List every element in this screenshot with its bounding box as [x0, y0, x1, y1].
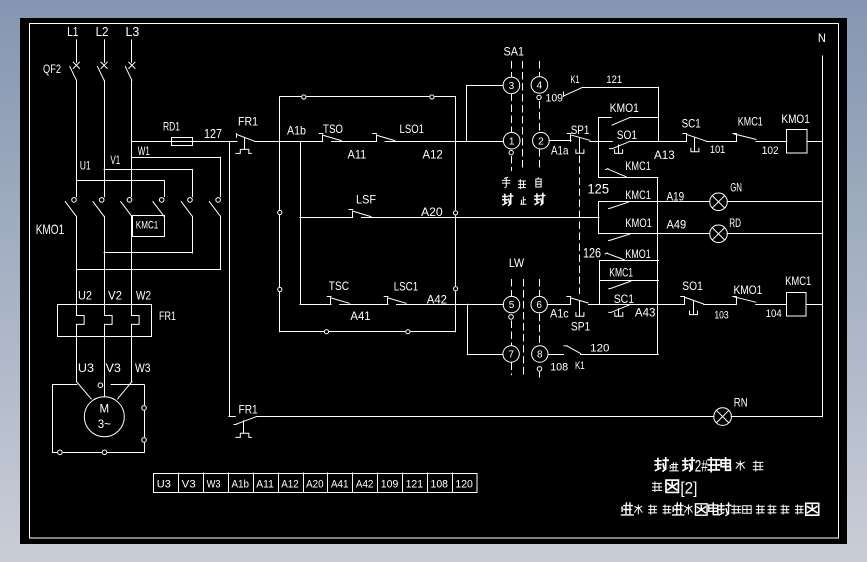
svg-text:W1: W1: [138, 144, 150, 158]
svg-text:SA1: SA1: [504, 45, 525, 59]
contactor KMC1 contact pole 2: [181, 198, 192, 253]
svg-text:FR1: FR1: [159, 309, 176, 323]
thermal contact FR1 (top): [229, 114, 258, 153]
svg-text:SC1: SC1: [614, 292, 635, 306]
svg-text:V2: V2: [108, 288, 122, 302]
contact KMO1a row: [599, 216, 710, 240]
limit contact TSC: [327, 297, 349, 305]
label 125: [588, 180, 610, 196]
wire coil to N: [807, 141, 823, 143]
svg-text:K1: K1: [570, 74, 579, 86]
wire U1: [76, 159, 164, 197]
label TSC: [329, 279, 349, 293]
svg-text:101: 101: [710, 144, 725, 156]
svg-text:KMC1: KMC1: [625, 159, 651, 173]
limit contact LSO1: [373, 134, 395, 142]
svg-text:RD: RD: [729, 216, 741, 230]
label LSO1: [400, 122, 425, 136]
svg-text:GN: GN: [730, 180, 742, 194]
LW terminal below 5: [509, 315, 514, 320]
svg-text:TSO: TSO: [323, 122, 343, 136]
label A20: [421, 205, 443, 219]
label U3: [78, 361, 94, 375]
wire KMC1 phase swap V: [104, 252, 192, 254]
svg-text:SP1: SP1: [571, 123, 590, 137]
wire SA1-3 to row1: [467, 85, 503, 141]
svg-text:W3: W3: [207, 479, 221, 491]
svg-text:A49: A49: [667, 217, 687, 231]
svg-text:4: 4: [537, 81, 543, 92]
svg-text:KMC1: KMC1: [136, 220, 159, 232]
svg-text:121: 121: [606, 74, 622, 86]
svg-text:8: 8: [537, 350, 543, 361]
svg-text:A1c: A1c: [550, 307, 569, 321]
svg-text:A20: A20: [421, 205, 443, 219]
label SP1 (bottom): [571, 320, 591, 334]
svg-text:TSC: TSC: [329, 279, 349, 293]
wire TSO-LSO1: [332, 141, 377, 143]
LW contact 8: [532, 346, 548, 362]
label LSF: [356, 192, 376, 206]
svg-text:2#: 2#: [695, 457, 708, 476]
label V3: [106, 361, 122, 375]
svg-text:L3: L3: [126, 24, 140, 39]
svg-text:5: 5: [509, 300, 515, 311]
svg-text:A12: A12: [281, 479, 299, 491]
bracket lamp rows: [598, 202, 600, 234]
label A43: [635, 306, 656, 320]
wire LSF row: [300, 217, 353, 219]
svg-text:V3: V3: [106, 361, 122, 375]
wire W1: [132, 144, 221, 197]
svg-text:QF2: QF2: [43, 62, 61, 76]
svg-text:W2: W2: [136, 288, 151, 302]
svg-text:KMO1: KMO1: [625, 216, 652, 230]
motor leads: [76, 336, 131, 399]
svg-text:108: 108: [431, 479, 449, 491]
svg-text:V3: V3: [182, 479, 196, 491]
svg-text:RD1: RD1: [163, 120, 180, 134]
label QF2: [43, 62, 61, 76]
wire TSC row: [300, 304, 331, 306]
svg-text:KMO1: KMO1: [781, 112, 810, 126]
relay contact K1 (bottom): [564, 346, 581, 354]
svg-text:A19: A19: [667, 189, 685, 203]
LW linkage dashes: [512, 280, 540, 378]
interlock KMO1 NC (row6): [733, 283, 763, 304]
svg-text:A41: A41: [350, 309, 371, 323]
SP1 linkage dashed: [579, 156, 581, 294]
SA1 contact 2: [533, 132, 550, 149]
label A1a: [551, 144, 569, 158]
svg-text:KMC1: KMC1: [785, 274, 811, 288]
label A1b: [287, 123, 306, 137]
limit contact LSC1: [384, 297, 406, 305]
svg-text:A1b: A1b: [287, 123, 306, 137]
wire SO1 to SC1 (A13): [630, 141, 687, 143]
svg-text:127: 127: [204, 126, 222, 141]
svg-text:125: 125: [588, 180, 610, 196]
wire LSC1 to LW circle 5: [397, 304, 504, 306]
level switch LW label: [509, 256, 525, 270]
svg-text:M: M: [100, 404, 110, 416]
wire V1: [104, 153, 192, 197]
breaker QF2 pole L3 + wire: [125, 40, 135, 197]
svg-text:U3: U3: [78, 361, 94, 375]
wire A1b branch down: [300, 141, 302, 304]
svg-text:FR1: FR1: [239, 402, 258, 416]
wire FR1 to TSO (A1b node): [255, 141, 323, 143]
svg-text:KMO1: KMO1: [734, 283, 763, 297]
contact KMC1b row: [599, 188, 710, 208]
motor terminal box: [53, 383, 147, 455]
lamp RN: [714, 396, 748, 426]
svg-text:SC1: SC1: [682, 117, 701, 131]
label A49: [667, 217, 687, 231]
svg-text:A41: A41: [331, 479, 349, 491]
svg-text:L2: L2: [96, 24, 109, 39]
svg-text:SO1: SO1: [617, 128, 637, 142]
label 101: [710, 144, 725, 156]
label 120: [590, 342, 609, 354]
svg-text:120: 120: [590, 342, 609, 354]
svg-text:A13: A13: [654, 148, 675, 162]
wire branch to LW 7: [467, 304, 503, 354]
svg-text:SP1: SP1: [571, 320, 591, 334]
svg-text:A20: A20: [306, 479, 324, 491]
wire SP1 to row6: [588, 304, 684, 306]
svg-text:W3: W3: [135, 361, 151, 375]
label W2: [136, 288, 151, 302]
svg-text:RN: RN: [734, 396, 748, 410]
label A12: [423, 148, 444, 162]
svg-text:104: 104: [766, 308, 782, 320]
svg-text:A43: A43: [635, 306, 656, 320]
SA1 terminal below 1: [509, 150, 513, 154]
wire to KMO1 coil: [756, 141, 787, 143]
label 103: [714, 310, 728, 322]
SA1 contact 4: [531, 77, 548, 94]
selector legend hand-auto: [502, 177, 544, 205]
pushbutton SO1 (start open): [610, 128, 638, 153]
svg-text:KMC1: KMC1: [625, 188, 651, 202]
svg-text:FR1: FR1: [238, 114, 258, 128]
LW contact 5: [503, 296, 519, 312]
svg-text:A42: A42: [356, 479, 374, 491]
wire SC1-KMC1nc: [707, 141, 737, 143]
label 102: [762, 145, 779, 157]
selector switch SA1 label: [504, 45, 525, 59]
svg-text:3: 3: [509, 81, 515, 92]
SA1 terminal 109: [537, 95, 541, 99]
svg-text:2: 2: [538, 136, 544, 147]
SA1 contact 3: [503, 77, 520, 94]
label K1: [570, 74, 579, 86]
relay contact K1 (top): [564, 87, 583, 96]
svg-text:7: 7: [508, 350, 514, 361]
label A1c: [550, 307, 569, 321]
phase terminal label L2: [96, 24, 109, 39]
label 104: [766, 308, 782, 320]
breaker QF2 pole L2 + wire: [98, 40, 108, 197]
svg-text:121: 121: [406, 479, 424, 491]
limit contact LSF: [349, 210, 371, 218]
lamp RD: [710, 216, 742, 242]
contactor KMC1 label box: [133, 216, 165, 237]
svg-text:A1a: A1a: [551, 144, 569, 158]
contact KMC1 aux row: [599, 265, 658, 289]
thermal overload FR1 heaters: [58, 304, 177, 337]
title line3 inlet valve control: [622, 503, 819, 515]
bracket row1 group: [598, 117, 600, 177]
svg-text:U3: U3: [157, 479, 171, 491]
wire down from FR1 node: [229, 141, 231, 416]
svg-text:V1: V1: [110, 153, 120, 167]
interlock KMC1 NC (row1): [733, 115, 763, 142]
svg-text:A12: A12: [423, 148, 444, 162]
wire to KMC1 coil: [756, 304, 787, 306]
contact KMO1b row: [599, 247, 658, 261]
pressure switch SP1 contact (bottom): [547, 297, 588, 317]
svg-text:126: 126: [583, 244, 601, 260]
breaker QF2 pole L1 + wire: [70, 40, 80, 197]
thermal contact FR1 (bottom): [229, 402, 258, 437]
svg-text:109: 109: [381, 479, 399, 491]
LW contact 7: [503, 346, 519, 362]
neutral rail N: [818, 31, 826, 417]
label U2: [78, 288, 92, 302]
panel boundary frame: [278, 95, 458, 334]
svg-text:KMO1: KMO1: [36, 221, 65, 237]
pushbutton SO1 (stop NC row6): [681, 279, 704, 315]
svg-text:3~: 3~: [98, 419, 111, 431]
svg-text:1: 1: [509, 136, 515, 147]
label SP1 (top): [571, 123, 590, 137]
svg-text:KMC1: KMC1: [738, 115, 763, 129]
pushbutton SC1 (stop NC): [682, 117, 707, 152]
svg-text:108: 108: [550, 362, 568, 374]
contactor KMO1 contact pole U: [65, 198, 76, 304]
svg-text:SO1: SO1: [682, 279, 703, 293]
terminal strip: [154, 473, 478, 493]
phase terminal label L1: [67, 24, 78, 39]
svg-text:K1: K1: [575, 360, 585, 372]
svg-text:KMO1: KMO1: [610, 101, 640, 115]
label A13: [654, 148, 675, 162]
title line2 diagram no.2: [653, 479, 698, 498]
svg-text:102: 102: [762, 145, 779, 157]
svg-text:KMC1: KMC1: [609, 265, 633, 279]
label LSC1: [394, 280, 419, 294]
label K1 bottom: [575, 360, 585, 372]
wire coil KMC1 to N: [806, 304, 822, 306]
wire SP1 to SO1: [590, 141, 613, 143]
svg-text:LSO1: LSO1: [400, 122, 425, 136]
SA1 linkage dashes: [512, 62, 540, 171]
wire RD to N: [727, 233, 822, 235]
wire TSC-LSC1: [340, 304, 388, 306]
contactor KMO1 label: [36, 221, 65, 237]
collector vertical: [657, 178, 659, 355]
svg-text:N: N: [818, 31, 826, 45]
svg-text:LSC1: LSC1: [394, 280, 419, 294]
contactor KMC1 contact pole 3: [209, 198, 220, 270]
label 108: [550, 362, 568, 374]
contactor KMC1 contact pole 1: [153, 198, 164, 217]
label A41: [350, 309, 371, 323]
wire LSO1 to SA1 circle 1: [385, 141, 503, 143]
wire SO1-KMO1nc: [704, 304, 736, 306]
motor M 3~: [84, 397, 124, 437]
lamp GN: [710, 180, 742, 210]
svg-text:A1b: A1b: [232, 479, 250, 491]
wire KMC1 phase swap U: [76, 269, 220, 271]
wire RN to N: [731, 416, 822, 418]
wire LW8 to K1: [548, 354, 564, 356]
label 126: [583, 244, 601, 260]
phase terminal label L3: [126, 24, 140, 39]
svg-text:LSF: LSF: [356, 192, 376, 206]
bracket lower group: [599, 261, 601, 305]
title line1 soft-start cabinet: [655, 457, 763, 476]
wire 121: [582, 74, 658, 141]
svg-text:103: 103: [714, 310, 728, 322]
label A11: [348, 148, 367, 162]
SA1 contact 1: [503, 132, 520, 149]
label 127: [204, 126, 222, 141]
coil KMC1: [785, 274, 811, 316]
limit contact TSO: [319, 122, 343, 142]
svg-text:U2: U2: [78, 288, 92, 302]
wire RN row: [257, 416, 714, 418]
selfhold contact KMO1: [599, 101, 658, 125]
pressure switch SP1 contact (top): [549, 134, 590, 154]
svg-text:A11: A11: [348, 148, 367, 162]
LW contact 6: [531, 296, 547, 312]
coil KMO1: [781, 112, 810, 153]
wire GN to N: [727, 201, 822, 203]
wire LSF to bracket: [361, 217, 599, 219]
contactor KMO1 contact pole V: [93, 198, 105, 304]
contact KMC1a row: [599, 159, 658, 178]
svg-text:109: 109: [546, 92, 564, 104]
label 109: [546, 92, 564, 104]
contactor KMO1 contact pole W: [121, 198, 132, 304]
pushbutton SC1 (close cmd): [609, 292, 635, 316]
fuse RD1: [132, 120, 229, 146]
svg-text:120: 120: [455, 479, 473, 491]
label V2: [108, 288, 122, 302]
svg-text:[2]: [2]: [680, 479, 697, 498]
svg-text:6: 6: [536, 300, 542, 311]
svg-text:KMO1: KMO1: [625, 247, 651, 261]
label A42: [427, 292, 448, 306]
svg-text:L1: L1: [67, 24, 78, 39]
wire K1 to collector: [581, 354, 659, 356]
label W3: [135, 361, 151, 375]
svg-text:LW: LW: [509, 256, 525, 270]
label A19: [667, 189, 685, 203]
LW terminal below 8: [537, 367, 542, 372]
svg-text:U1: U1: [80, 159, 91, 173]
svg-text:A11: A11: [256, 479, 274, 491]
